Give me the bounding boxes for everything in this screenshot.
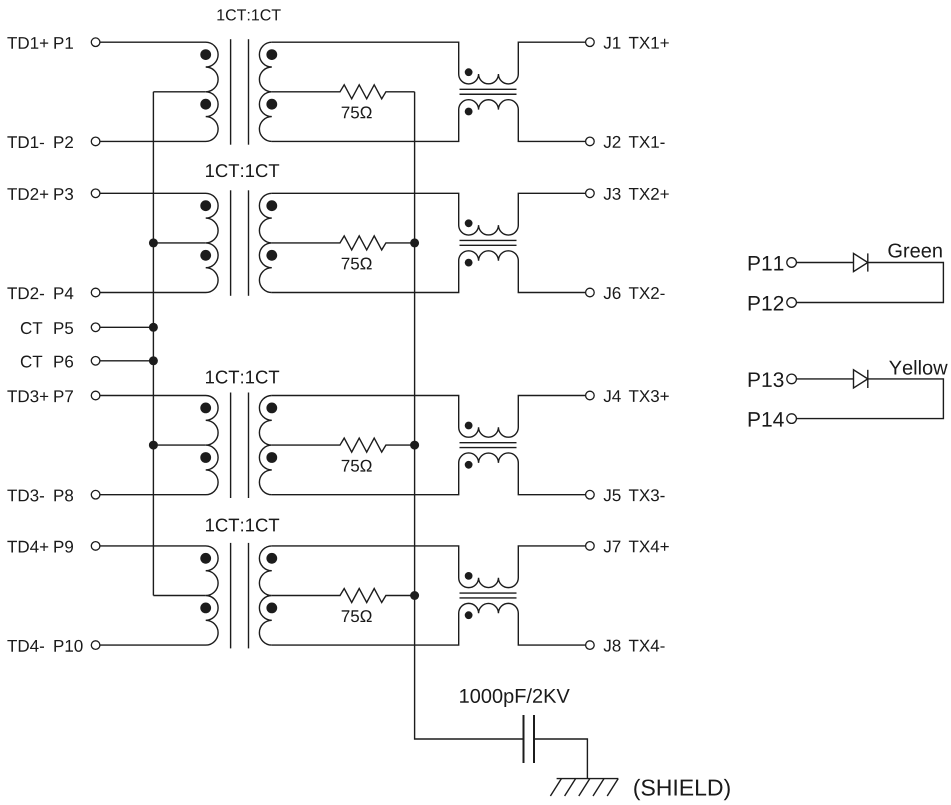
label P7 [54,390,73,402]
choke L1 dot top [465,68,473,76]
label J7 [604,541,621,553]
label TD4+ [7,541,48,553]
transformer T1 primary winding [100,42,218,141]
wire P6 to CT bus [100,360,153,362]
transformer T2 primary dot (bottom half) [200,250,211,261]
wire+choke L3 bottom winding (T3 secondary- to J5) [272,453,586,495]
wire T4 primary center tap to CT bus [153,595,205,597]
choke L1 dot bottom [465,108,473,116]
capacitor C1 left plate [523,715,525,763]
transformer T2 ratio label 1CT:1CT [206,164,279,177]
transformer T1 ratio label 1CT:1CT [217,9,280,20]
wire+choke L4 top winding (T4 secondary+ to J7) [272,546,586,588]
terminal P11 circle [787,258,797,268]
transformer T3 primary dot (top half) [200,403,211,414]
terminal P4 circle [91,288,100,297]
resistor R4 75Ω (T4 secondary center tap to shield bus) [272,589,415,603]
capacitor C1 right plate [533,715,535,763]
wire+choke L2 bottom winding (T2 secondary- to J6) [272,251,586,293]
resistor R3 75Ω (T3 secondary center tap to shield bus) [272,438,415,452]
junction dot shield bus at R4 [410,591,419,600]
transformer T4 secondary dot (top half) [266,553,277,564]
label TD4- [7,640,44,652]
label P5 [54,322,73,334]
label J1 [604,37,621,49]
label TX1- (J2) [629,136,665,148]
wire LED Green cathode to P12 [796,263,943,303]
label TD2+ [7,188,48,200]
label J8 [604,640,621,652]
label P3 [54,188,73,200]
label P4 [54,287,73,299]
transformer T1 primary dot (top half) [200,49,211,60]
terminal P8 circle [91,490,100,499]
wire T3 primary center tap to CT bus [153,444,205,446]
terminal P2 circle [91,137,100,146]
transformer T2 core line right [248,190,250,295]
wire T1 primary center tap to CT bus [153,91,205,93]
transformer T1 secondary dot (top half) [266,49,277,60]
wire+choke L1 bottom winding (T1 secondary- to J2) [272,100,586,142]
resistor R4 value label 75Ω [342,610,372,622]
LED Yellow cathode bar [867,370,869,388]
label TX4+ (J7) [629,541,669,553]
wire capacitor to shield ground [534,739,587,779]
choke L2 dot bottom [465,259,473,267]
transformer T3 core line left [230,393,232,499]
junction dot CT bus at T2 center tap [149,238,158,247]
transformer T2 secondary dot (bottom half) [266,250,277,261]
choke L4 core line lower [460,597,517,599]
transformer T4 primary winding [100,546,218,645]
label TX3+ (J4) [629,390,669,402]
resistor R3 value label 75Ω [342,460,372,472]
terminal J3 circle [586,189,595,198]
resistor R2 value label 75Ω [342,258,372,270]
transformer T4 secondary dot (bottom half) [266,603,277,614]
label TX2- (J6) [629,287,665,299]
label Green [888,243,941,257]
choke L1 core line lower [460,93,517,95]
junction dot CT bus at P6 [149,356,158,365]
shield ground hatch 4 [593,779,604,796]
transformer T3 primary winding [100,396,218,495]
label J4 [604,390,621,402]
choke L4 core line upper [460,592,517,594]
label P2 [54,136,73,148]
transformer T2 core line left [230,190,232,295]
transformer T1 core line right [248,39,250,145]
choke L3 dot top [465,422,473,430]
terminal J5 circle [586,490,595,499]
label TD3+ [7,390,48,402]
terminal P7 circle [91,391,100,400]
label P9 [54,541,73,553]
choke L4 dot top [465,572,473,580]
capacitor C1 label 1000pF/2KV [460,688,570,707]
terminal P6 circle [91,357,100,366]
transformer T4 primary dot (top half) [200,553,211,564]
transformer T4 secondary winding [259,546,271,645]
transformer T1 primary dot (bottom half) [200,99,211,110]
terminal J1 circle [586,38,595,47]
transformer T4 ratio label 1CT:1CT [206,518,279,531]
terminal P1 circle [91,38,100,47]
terminal J8 circle [586,641,595,650]
terminal P3 circle [91,189,100,198]
shield ground hatch 5 [607,779,618,796]
wire shield bus (resistor node to capacitor) [415,92,524,739]
transformer T3 secondary winding [259,396,271,495]
wire+choke L4 bottom winding (T4 secondary- to J8) [272,603,586,645]
terminal J4 circle [586,391,595,400]
choke L2 core line lower [460,244,517,246]
shield ground bar [557,778,619,780]
label (SHIELD) [634,779,730,800]
choke L3 core line lower [460,447,517,449]
transformer T2 primary winding [100,193,218,292]
terminal P9 circle [91,542,100,551]
LED Yellow diode triangle [854,370,868,388]
terminal J2 circle [586,137,595,146]
wire+choke L3 top winding (T3 secondary+ to J4) [272,396,586,438]
wire P13 to LED anode [796,378,853,380]
junction dot shield bus at R3 [410,441,419,450]
transformer T2 secondary dot (top half) [266,200,277,211]
terminal P13 circle [787,374,797,384]
label P8 [54,489,73,501]
label TX2+ (J3) [629,188,669,200]
label TD1+ [7,37,48,49]
wire P5 to CT bus [100,326,153,328]
terminal P5 circle [91,323,100,332]
label Yellow [889,360,948,375]
choke L4 dot bottom [465,611,473,619]
shield ground hatch 3 [579,779,590,796]
transformer T4 core line right [248,543,250,649]
label TX4- (J8) [629,640,665,652]
transformer T3 secondary dot (top half) [266,403,277,414]
label TX3- (J5) [629,489,665,501]
transformer T3 ratio label 1CT:1CT [206,370,279,383]
label J6 [604,287,621,299]
terminal P14 circle [787,414,797,424]
wire+choke L1 top winding (T1 secondary+ to J1) [272,42,586,84]
label P10 [54,640,82,652]
choke L1 core line upper [460,88,517,90]
label P14 [749,412,784,426]
label P1 [54,37,73,49]
junction dot shield bus at R2 [410,238,419,247]
label J3 [604,188,621,200]
label CT (P6) [21,356,42,368]
wire P11 to LED anode [796,262,853,264]
label P13 [749,372,784,387]
transformer T1 secondary winding [259,42,271,141]
transformer T1 secondary dot (bottom half) [266,99,277,110]
wire LED Yellow cathode to P14 [796,379,943,419]
choke L2 core line upper [460,239,517,241]
transformer T3 core line right [248,393,250,499]
wire T2 primary center tap to CT bus [153,242,205,244]
label J2 [604,136,621,148]
wire CT bus vertical (T1 ct to T4 ct) [152,92,154,596]
transformer T2 secondary winding [259,193,271,292]
resistor R1 75Ω (T1 secondary center tap to shield bus) [272,85,415,99]
resistor R1 value label 75Ω [342,106,372,118]
shield ground hatch 1 [550,779,561,796]
transformer T4 core line left [230,543,232,649]
LED Green cathode bar [867,253,869,271]
LED Green diode triangle [854,253,868,271]
choke L3 core line upper [460,442,517,444]
junction dot CT bus at T3 center tap [149,441,158,450]
wire+choke L2 top winding (T2 secondary+ to J3) [272,193,586,235]
transformer T3 primary dot (bottom half) [200,452,211,463]
junction dot CT bus at P5 [149,323,158,332]
transformer T2 primary dot (top half) [200,200,211,211]
label J5 [604,489,621,501]
terminal J7 circle [586,542,595,551]
transformer T4 primary dot (bottom half) [200,603,211,614]
terminal P10 circle [91,641,100,650]
terminal P12 circle [787,298,797,308]
terminal J6 circle [586,288,595,297]
label P12 [749,296,784,311]
resistor R2 75Ω (T2 secondary center tap to shield bus) [272,236,415,250]
label TX1+ (J1) [629,37,669,49]
transformer T1 core line left [230,39,232,145]
label TD2- [7,287,44,299]
choke L2 dot top [465,219,473,227]
label P11 [749,256,784,270]
label CT (P5) [21,322,42,334]
shield ground hatch 2 [565,779,576,796]
label TD3- [7,489,44,501]
choke L3 dot bottom [465,461,473,469]
label TD1- [7,136,44,148]
label P6 [54,356,73,368]
transformer T3 secondary dot (bottom half) [266,452,277,463]
